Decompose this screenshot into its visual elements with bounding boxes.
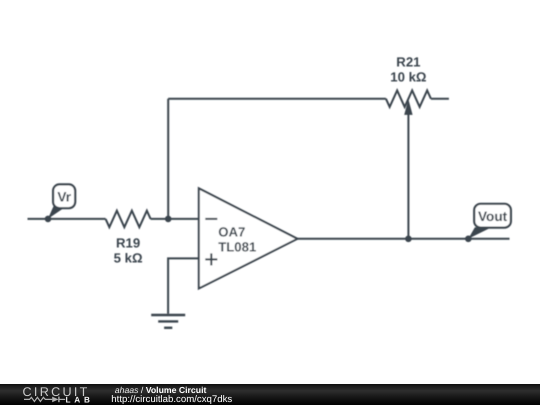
node Vout flag	[465, 204, 511, 242]
svg-text:http://circuitlab.com/cxq7dks: http://circuitlab.com/cxq7dks	[111, 394, 232, 405]
junction wiper to output	[405, 236, 412, 243]
svg-text:R21: R21	[396, 54, 420, 69]
potentiometer R21 right stub	[431, 98, 449, 100]
node Vr flag	[45, 184, 75, 222]
CircuitLab logo	[23, 385, 94, 405]
junction at inverting node	[165, 216, 172, 223]
op-amp OA7 body	[199, 188, 298, 288]
svg-text:TL081: TL081	[218, 239, 256, 254]
op-amp non-inverting input mark	[205, 253, 217, 265]
wire input (Vr to R19)	[28, 218, 106, 220]
op-amp inverting input mark	[205, 218, 217, 220]
potentiometer R21	[386, 90, 431, 107]
svg-text:OA7: OA7	[218, 225, 245, 240]
footer bar	[0, 384, 540, 405]
svg-text:10 kΩ: 10 kΩ	[390, 69, 427, 84]
wire R19 to inverting input	[151, 218, 199, 220]
svg-text:5 kΩ: 5 kΩ	[114, 250, 143, 265]
svg-text:R19: R19	[116, 235, 140, 250]
wire feedback vertical	[167, 99, 169, 219]
wire feedback horizontal to R21	[168, 98, 386, 100]
wire non-inverting input	[168, 258, 199, 313]
potentiometer R21 wiper arrow	[404, 99, 412, 239]
footer text	[111, 385, 232, 405]
svg-text:Vr: Vr	[57, 190, 71, 205]
svg-text:LAB: LAB	[66, 395, 94, 404]
resistor R19	[106, 211, 151, 228]
svg-text:Vout: Vout	[478, 209, 508, 224]
wire output	[298, 238, 510, 240]
ground	[151, 315, 185, 328]
